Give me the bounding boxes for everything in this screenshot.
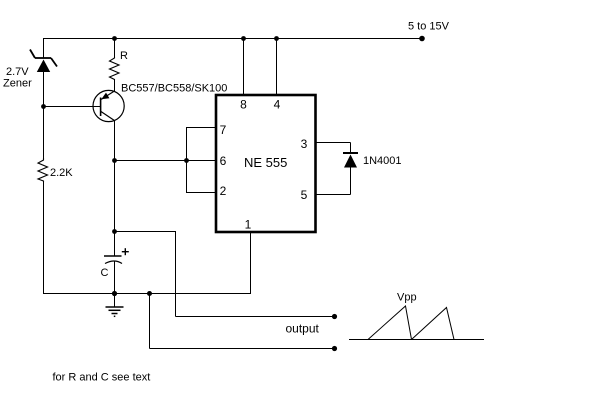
svg-text:NE 555: NE 555 [244, 155, 287, 170]
node collector pin6 junction [112, 158, 117, 163]
waveform sawtooth [368, 306, 454, 340]
pin 1 label [245, 218, 252, 232]
waveform baseline [349, 339, 484, 341]
node bus junction [184, 158, 189, 163]
wire emitter lead [114, 80, 116, 91]
resistor 2.2K [38, 158, 48, 182]
label R [120, 50, 128, 62]
pin 6 label [220, 154, 227, 168]
op-amp U1 NE 555 box [216, 95, 316, 232]
wire ground tap to output lower [150, 294, 335, 349]
label 2.2K [50, 167, 73, 179]
node cap top junction [112, 229, 117, 234]
svg-text:8: 8 [240, 97, 247, 111]
node output upper terminal [332, 314, 337, 319]
label 2.7V Zener [3, 66, 32, 90]
wire left rail upper [43, 38, 45, 58]
label NE 555 [244, 155, 287, 170]
wire left rail middle [43, 72, 45, 159]
node output lower terminal [332, 346, 337, 351]
svg-text:2.2K: 2.2K [50, 167, 73, 179]
wire left rail lower [43, 182, 45, 294]
svg-text:7: 7 [220, 123, 227, 137]
svg-text:for R and C see text: for R and C see text [53, 371, 151, 383]
svg-text:3: 3 [301, 137, 308, 151]
pin 4 label [274, 97, 281, 111]
wire cap top to output upper [115, 232, 335, 317]
label output [286, 321, 320, 335]
wire R top lead [114, 39, 116, 58]
svg-text:5 to 15V: 5 to 15V [408, 20, 450, 32]
zener diode 2.7V [30, 50, 57, 73]
wire bottom ground rail [43, 293, 251, 295]
pin 7 label [220, 123, 227, 137]
svg-text:5: 5 [301, 188, 308, 202]
label 1N4001 [363, 155, 402, 167]
svg-text:BC557/BC558/SK100: BC557/BC558/SK100 [121, 82, 227, 94]
node base junction [41, 104, 46, 109]
label Vpp [397, 291, 417, 303]
svg-text:1: 1 [245, 218, 252, 232]
wire pin 3 [316, 142, 351, 144]
node pin 4 rail [274, 36, 279, 41]
wire pin 4 [276, 39, 278, 96]
svg-text:Vpp: Vpp [397, 291, 417, 303]
diode D2 1N4001 [343, 143, 358, 195]
svg-text:C: C [101, 267, 109, 279]
wire base lead [44, 106, 101, 108]
svg-text:Zener: Zener [3, 77, 32, 89]
svg-text:2: 2 [220, 184, 227, 198]
node ground junction [112, 291, 117, 296]
node supply terminal [419, 36, 425, 42]
svg-text:output: output [286, 321, 320, 335]
wire pin6 [115, 160, 217, 162]
svg-text:R: R [120, 50, 128, 62]
wire pin7 pin2 bus [186, 128, 216, 193]
svg-text:1N4001: 1N4001 [363, 155, 402, 167]
label C [101, 267, 109, 279]
wire collector down [114, 121, 116, 257]
label for R and C see text [53, 371, 151, 383]
svg-text:4: 4 [274, 97, 281, 111]
label C plus [122, 248, 129, 255]
wire pin 1 [250, 232, 252, 294]
transistor Q1 PNP [93, 90, 124, 121]
wire top supply rail [43, 38, 422, 40]
node R top [112, 36, 117, 41]
pin 5 label [301, 188, 308, 202]
pin 3 label [301, 137, 308, 151]
node pin 8 rail [241, 36, 246, 41]
ground [106, 294, 124, 317]
resistor R [110, 57, 120, 80]
node output tap junction [147, 291, 152, 296]
pin 2 label [220, 184, 227, 198]
wire pin 5 [316, 194, 351, 196]
svg-text:6: 6 [220, 154, 227, 168]
label 5 to 15V [408, 20, 450, 32]
pin 8 label [240, 97, 247, 111]
wire pin 8 [243, 39, 245, 96]
svg-text:2.7V: 2.7V [6, 66, 29, 78]
label BC557/BC558/SK100 [121, 82, 227, 94]
capacitor C [104, 256, 122, 294]
